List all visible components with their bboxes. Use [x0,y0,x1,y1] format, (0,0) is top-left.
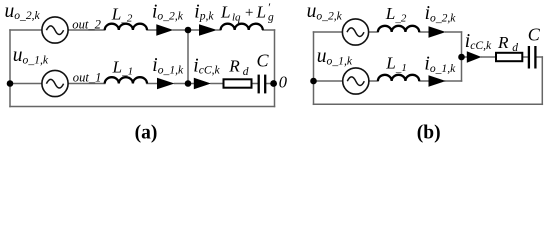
wire: (b) bottom branch seg rail-to-source [314,80,343,82]
source V1 (b) u_o_1,k [343,68,369,94]
wire: (b) top branch seg arrow-to-corner [446,31,462,33]
source V2 (b) u_o_2,k [342,19,368,45]
svg-text:R: R [228,57,240,76]
svg-text:R: R [497,33,509,52]
svg-text:out_1: out_1 [73,70,102,84]
node dot (b) mid junction [458,54,465,61]
wire: (a) top branch seg Llq-to-corner [263,29,275,31]
current arrow i_o_1,k (a) [157,78,175,89]
wire: (a) mid branch seg rail-to-source [10,83,42,85]
inductor L_1 (b) [378,75,419,81]
capacitor C (b) [529,46,536,69]
wire: (a) top branch seg ipk-arrow-to-Llq [217,29,221,31]
capacitor C (a) [259,75,266,94]
wire: (a) mid branch seg source-to-L1 [69,83,105,85]
wire: (b) top branch seg source-to-L2 [369,31,378,33]
current arrow i_o_2,k (a) [156,24,173,35]
resistor R_d (a) [224,79,252,87]
node dot (a) top junction [185,27,192,34]
node 0 dot (a) right rail [270,80,277,87]
wire: (a) mid branch seg Rd-to-cap [252,83,259,85]
svg-text:(b): (b) [417,122,441,143]
wire: (b) mid branch seg cap-to-rail [535,56,542,58]
wire: (b) bottom branch seg L1-to-arrow [419,80,428,82]
current arrow i_o_1,k (b) [429,75,446,86]
svg-text:0: 0 [279,72,288,91]
wire: (b) left rail [313,32,315,104]
source V2 (a) u_o_2,k [42,17,68,43]
wire: (a) mid branch seg L1-to-arrow [147,83,157,85]
node dot (a) mid junction [185,80,192,87]
wire: (b) bottom rail [314,103,543,105]
wire: (b) mid branch seg Rd-to-cap [522,56,529,58]
current arrow i_p,k (a) [199,24,217,35]
wire: (a) vertical link between nodes [187,30,189,84]
svg-text:(a): (a) [135,122,158,143]
wire: (b) top branch seg L2-to-arrow [419,31,428,33]
wire: (a) left rail [9,30,11,107]
current arrow i_o_2,k (b) [429,26,446,37]
inductor L_2 (a) [105,24,147,30]
wire: (a) top branch seg source-left [10,29,42,31]
source V1 (a) u_o_1,k [42,70,68,96]
svg-text:C: C [528,25,541,45]
wire: (b) mid branch seg node-to-arrow [462,56,467,58]
svg-text:C: C [257,51,270,71]
wire: (b) bottom branch seg arrow-to-corner [445,80,462,82]
current arrow i_cC,k (b) [467,51,482,62]
svg-text:+: + [244,5,254,21]
wire: (a) right rail [274,30,276,107]
node dot (a) left rail junction [7,80,14,87]
svg-text:out_2: out_2 [72,17,101,31]
svg-text:d: d [243,66,249,78]
resistor R_d (b) [496,53,522,61]
wire: (b) right rail [541,57,543,104]
svg-text:d: d [512,42,518,54]
current arrow i_cC,k (a) [194,78,211,89]
wire: (a) mid branch seg icC-arrow-to-Rd [211,83,224,85]
node dot (b) left rail junction [310,78,317,85]
wire: (b) mid branch seg arrow-to-Rd [482,56,497,58]
wire: (b) top branch seg source-left [314,31,343,33]
wire: (a) mid branch seg cap-to-rail [265,83,274,85]
svg-text:L: L [220,3,231,22]
svg-text:lq: lq [232,12,241,24]
wire: (a) bottom rail [10,106,275,108]
wire: (b) vertical link top-to-bottom [461,32,463,81]
label L_lq + L'_g (a) [220,0,274,24]
svg-text:L: L [256,3,267,22]
wire: (a) top branch seg source-to-L2 [69,29,105,31]
inductor L_lq+L'_g (a) [221,24,263,30]
wire: (a) top branch seg L2-to-arrow [147,29,157,31]
inductor L_2 (b) [378,26,419,32]
wire: (a) top branch seg arrow-to-node [173,29,199,31]
inductor L_1 (a) [105,77,147,83]
wire: (b) bottom branch seg source-to-L1 [369,80,378,82]
svg-text:g: g [268,12,274,24]
wire: (a) mid branch seg arrow-to-node [175,83,194,85]
